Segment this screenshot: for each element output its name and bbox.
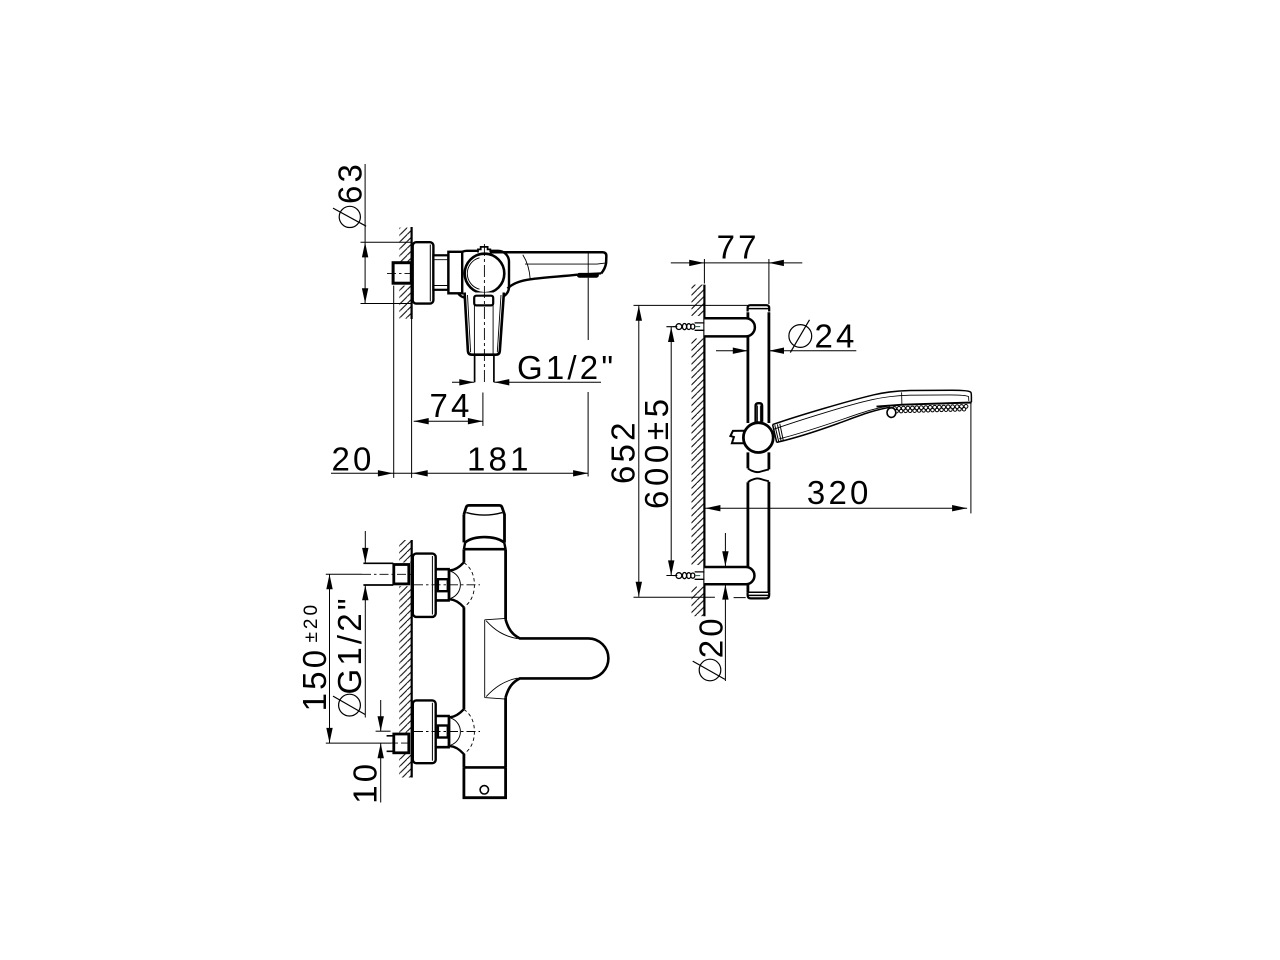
top union nut xyxy=(436,569,450,600)
diameter symbol of Ø20 xyxy=(699,659,721,681)
lever base fan lines xyxy=(485,618,506,699)
spout outlet extension line xyxy=(587,253,589,274)
handle inner verticals xyxy=(474,305,493,354)
wall line xyxy=(411,227,413,319)
escutcheon inner edge line xyxy=(429,245,431,302)
vertical centerline xyxy=(483,244,485,382)
bottom escutcheon xyxy=(413,700,436,763)
rail break squiggles xyxy=(748,469,769,473)
dimension Ø63 xyxy=(364,164,366,303)
nozzle band xyxy=(877,403,972,407)
svg-text:G1/2": G1/2" xyxy=(331,595,368,694)
lever handle xyxy=(506,620,609,698)
bottom screw centerline xyxy=(673,575,700,577)
slider body circle xyxy=(743,423,773,453)
rail bottom cap xyxy=(748,592,770,598)
extension line from union left edge xyxy=(393,286,395,478)
svg-text:20: 20 xyxy=(332,441,375,478)
top supply pipe xyxy=(363,563,393,585)
dimension 10 xyxy=(380,700,382,803)
bottom cap xyxy=(464,767,506,797)
handle inner lines xyxy=(468,295,502,352)
dimension 74 xyxy=(414,420,483,422)
handle inner bottom line xyxy=(779,405,894,439)
dimension Ø24 xyxy=(716,350,856,352)
cartridge cap on top xyxy=(478,247,490,253)
svg-text:652: 652 xyxy=(605,419,642,484)
dimension 320 xyxy=(705,507,967,509)
svg-text:±20: ±20 xyxy=(301,602,322,643)
top wall bracket arm xyxy=(704,318,754,336)
top escutcheon xyxy=(413,554,436,617)
mixer body behind circle xyxy=(456,251,509,298)
spout top edge xyxy=(490,252,606,273)
top inlet centerline xyxy=(414,584,480,586)
escutcheon flange xyxy=(413,242,434,303)
svg-text:320: 320 xyxy=(807,474,872,511)
spout inner highlight lines xyxy=(525,263,606,264)
body right edge xyxy=(504,549,507,767)
hand shower handle top edge xyxy=(773,390,972,424)
slider lever xyxy=(756,403,763,422)
sleeve xyxy=(448,252,462,293)
diameter symbol of Ø63 xyxy=(339,206,360,227)
wall line xyxy=(411,540,413,778)
spout bottom edge xyxy=(578,273,602,274)
svg-text:600±5: 600±5 xyxy=(638,394,675,509)
top pipe centerline xyxy=(326,573,362,575)
circle inner arc xyxy=(467,258,479,289)
svg-text:77: 77 xyxy=(717,228,760,265)
svg-text:74: 74 xyxy=(430,387,473,424)
top pipe square nut xyxy=(394,565,409,584)
hook button xyxy=(887,408,896,418)
svg-text:181: 181 xyxy=(467,441,532,478)
handle collar band xyxy=(474,296,493,306)
bottom pipe square nut xyxy=(394,734,409,753)
G1/2 pipe stub xyxy=(475,355,494,383)
top screw centerline xyxy=(673,326,700,328)
wall hatching right drawing xyxy=(692,285,705,617)
handle inner top line xyxy=(774,395,969,429)
bottom pipe centerline xyxy=(326,742,391,744)
wall hatching bottom drawing xyxy=(399,540,411,778)
knob top face ellipse xyxy=(466,513,502,516)
bottom wall bracket arm xyxy=(704,567,754,584)
dimension 77 xyxy=(671,262,803,264)
aerator outlet xyxy=(577,273,599,278)
dimension 600 +-5 xyxy=(670,327,672,575)
union centerline dashes xyxy=(387,272,458,274)
dimension Ø20 xyxy=(724,533,726,681)
top inlet bell xyxy=(450,562,464,570)
top screw xyxy=(676,324,695,330)
svg-text:150: 150 xyxy=(296,647,333,712)
extension line spout outlet xyxy=(587,278,589,477)
body bottom section line xyxy=(464,766,506,769)
head divider xyxy=(901,392,903,404)
knurl cone lines xyxy=(775,424,784,442)
dimension 150 +-20 xyxy=(329,574,331,743)
eccentric union square behind wall xyxy=(393,263,411,284)
rail right edge xyxy=(768,312,771,592)
dimension 652 xyxy=(638,306,640,597)
wall hatching top drawing xyxy=(399,228,411,319)
svg-text:24: 24 xyxy=(815,317,858,354)
cap screw hole xyxy=(480,786,488,794)
svg-text:10: 10 xyxy=(346,761,383,804)
thermostat knob xyxy=(464,505,505,542)
diameter symbol of Ø24 xyxy=(789,325,812,348)
dimension G1/2" xyxy=(452,381,601,383)
bottom union nut xyxy=(436,716,450,747)
svg-text:G1/2": G1/2" xyxy=(517,349,616,386)
connector nipple xyxy=(433,255,448,289)
wall extension line down to 181 dim xyxy=(411,319,413,478)
body circle (cartridge housing) xyxy=(465,254,505,294)
knob neck dome xyxy=(465,537,504,542)
bottom supply pipe stub xyxy=(387,736,394,752)
hand shower end cap xyxy=(773,425,777,443)
bottom inlet centerline xyxy=(414,731,480,733)
body left edge xyxy=(462,549,465,767)
body top line xyxy=(464,548,506,551)
hand shower bottom edge xyxy=(777,407,890,442)
bottom inlet bell xyxy=(450,709,464,717)
slider clip xyxy=(730,431,744,444)
dimension 20 / 181 baseline xyxy=(331,472,588,474)
svg-text:20: 20 xyxy=(692,615,729,658)
wall line xyxy=(703,285,705,617)
dimension pipe OD small arrows xyxy=(364,531,366,718)
rail left edge xyxy=(747,312,750,592)
svg-text:63: 63 xyxy=(332,161,369,204)
bottom screw xyxy=(676,573,695,579)
spout lower contour to body xyxy=(508,275,578,289)
handle outline xyxy=(465,293,504,355)
rail top cap xyxy=(748,305,770,311)
diameter symbol of G1/2 label xyxy=(339,694,361,716)
